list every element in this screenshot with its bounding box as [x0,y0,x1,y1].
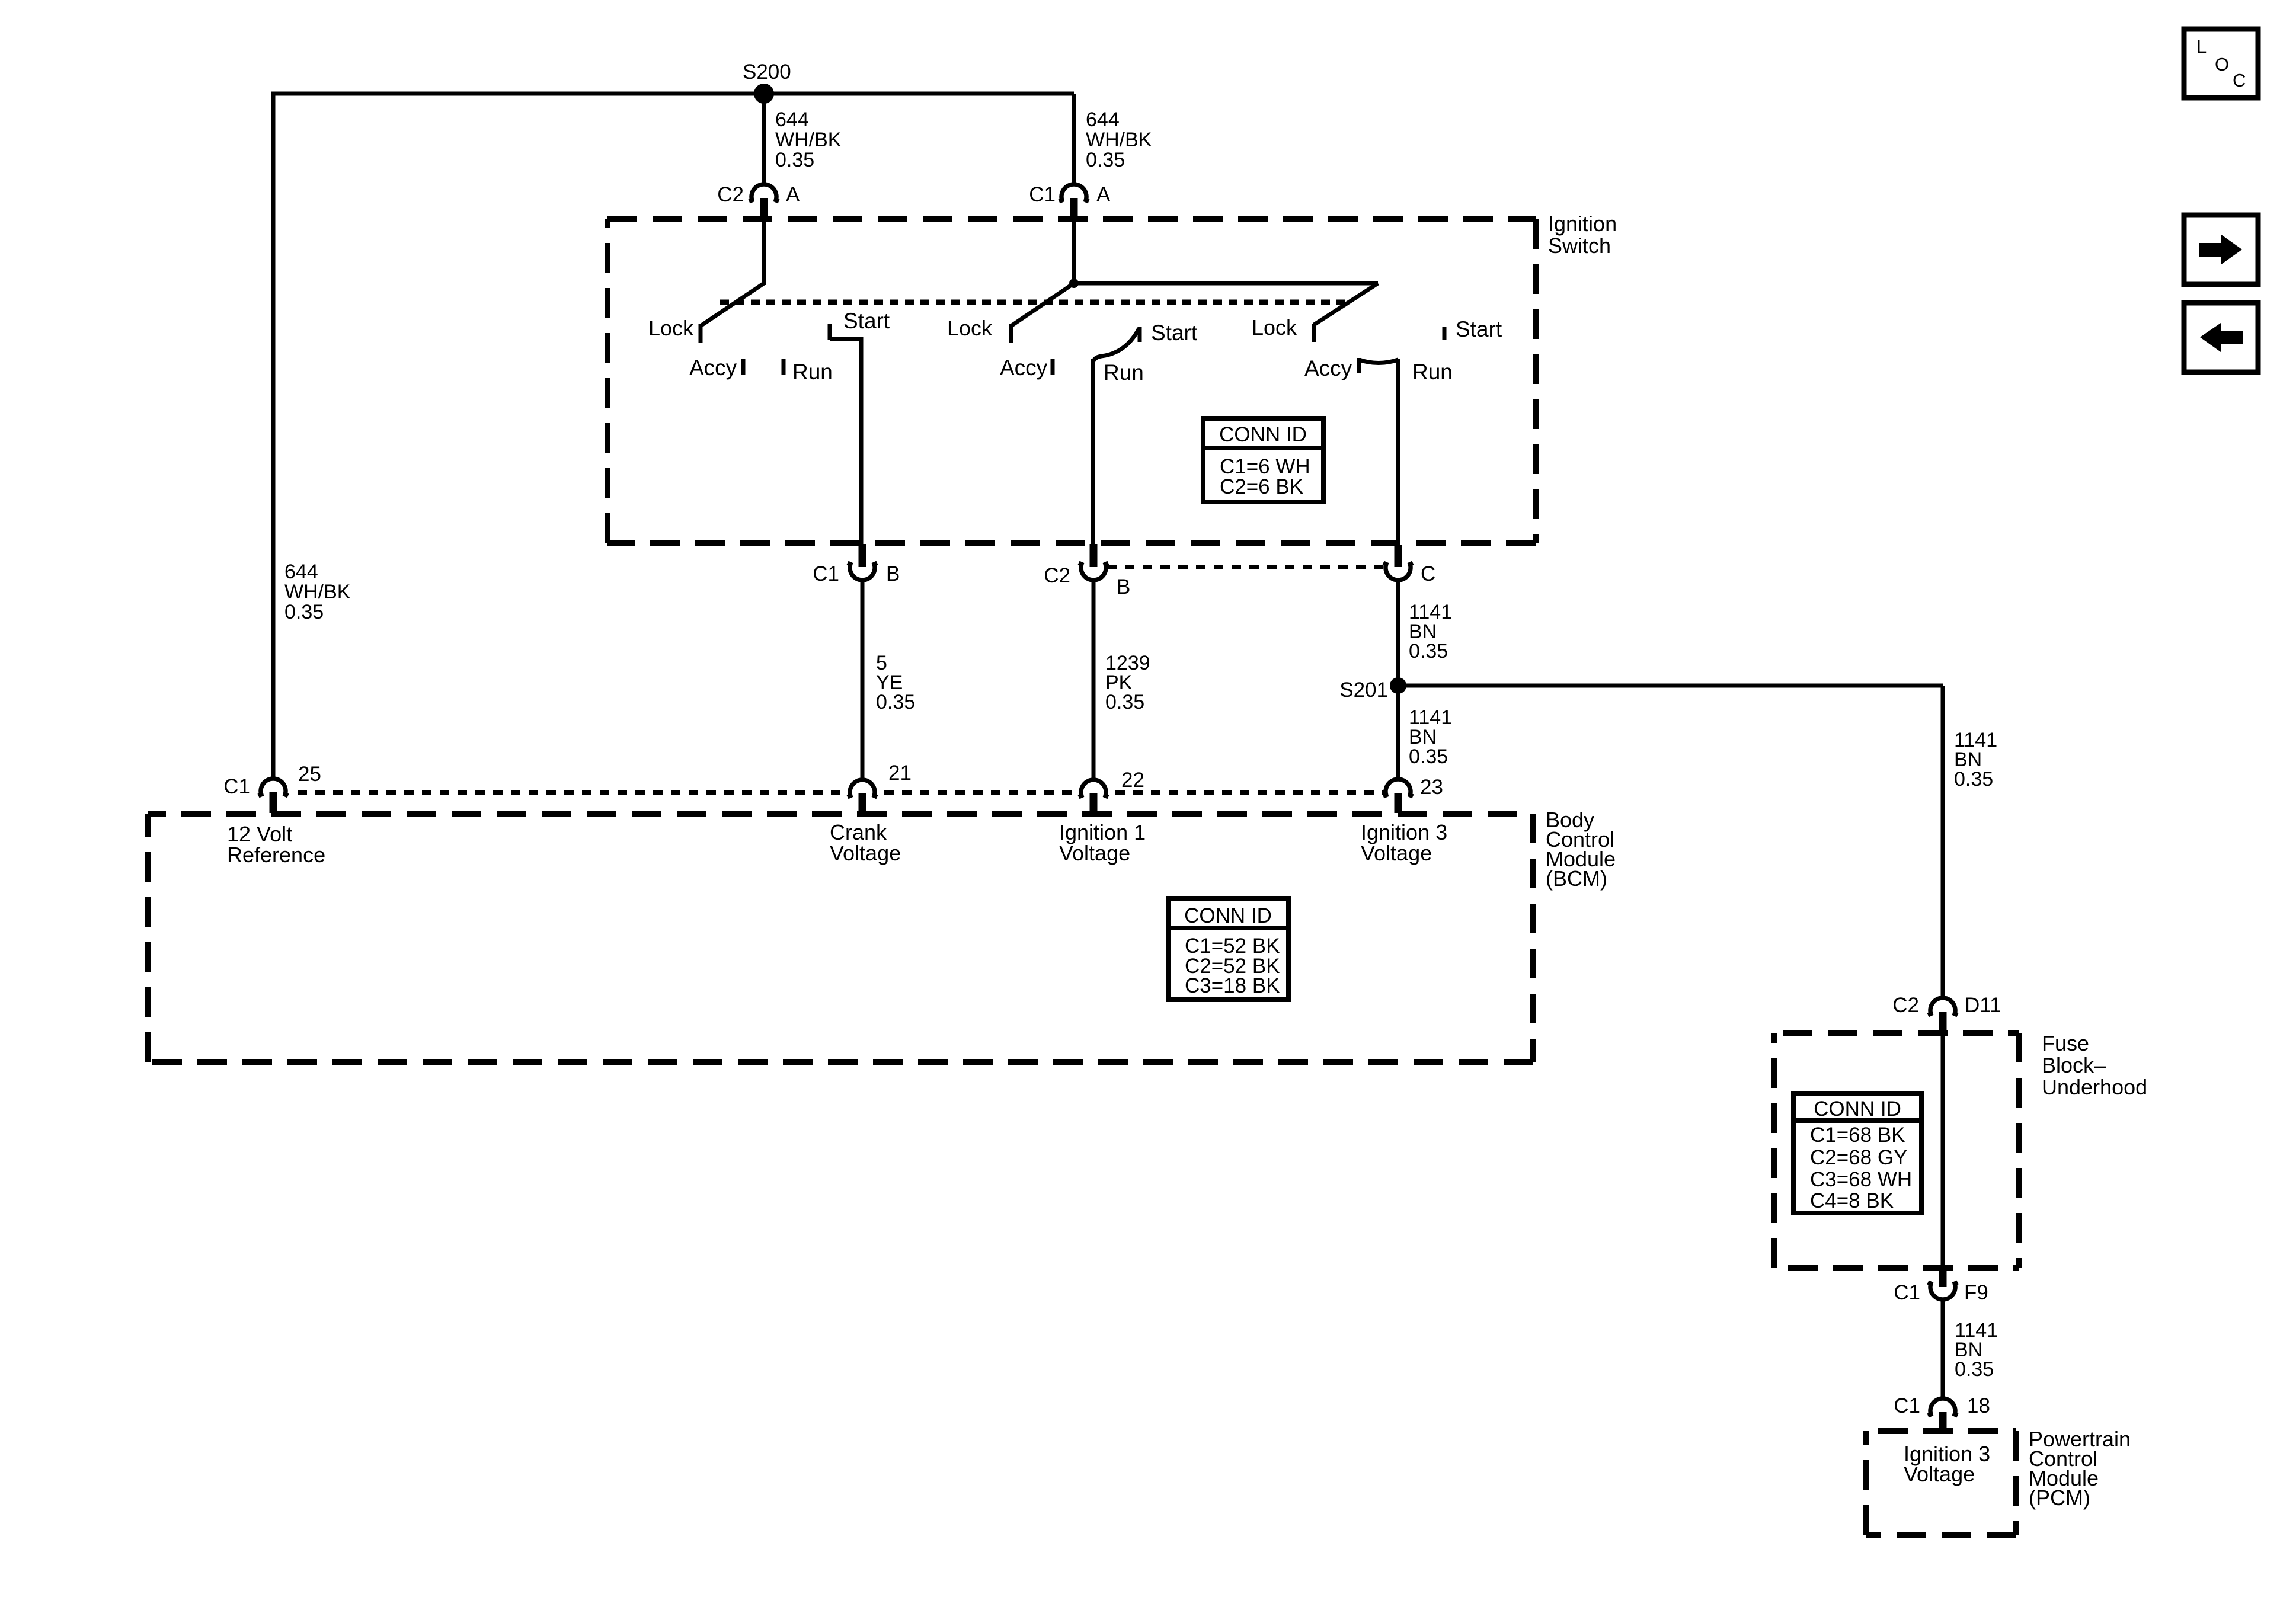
pole3 Accy-Run contact curve [1359,360,1398,363]
dotted line connector row C2B to C [1107,565,1384,569]
mechanical link dotted line [720,300,1351,305]
connector pin C terminal [1395,545,1402,567]
svg-text:(BCM): (BCM) [1546,866,1607,891]
wire top bus right drop to ignition switch C1 pin A [1072,94,1076,186]
switch pole3 wiper to Lock [1314,283,1378,325]
svg-text:21: 21 [888,761,912,785]
connector pin 22 dome [1079,780,1108,797]
wire 1239 PK to BCM pin 22 [1092,580,1096,781]
svg-text:Fuse: Fuse [2042,1031,2089,1055]
svg-text:A: A [1096,183,1111,206]
svg-text:C: C [2233,70,2246,91]
svg-text:Start: Start [1456,317,1502,341]
svg-text:Ignition: Ignition [1548,212,1617,236]
connector C2 pin D11 dome [1928,998,1958,1015]
svg-text:Start: Start [1151,321,1198,345]
pole3 Start contact [1443,327,1447,340]
wire inside fuse block [1941,1033,1945,1270]
wire 644 WH/BK left drop to BCM C1 pin 25 [271,92,276,780]
wire pole1 from pin A [762,216,766,285]
pole1 Run contact [782,359,786,375]
label 1239 PK 0.35 [1105,652,1150,713]
svg-text:C1: C1 [223,775,250,798]
CONN ID table ignition switch [1203,418,1323,502]
connector pin C cup [1383,563,1413,580]
svg-text:C3=68 WH: C3=68 WH [1810,1168,1912,1191]
svg-text:22: 22 [1121,769,1144,792]
svg-text:0.35: 0.35 [1409,745,1448,768]
svg-text:B: B [886,562,900,585]
fuse block underhood box [1774,1033,2019,1268]
svg-text:Lock: Lock [648,316,694,340]
label Powertrain Control Module (PCM) [2029,1427,2131,1510]
connector C2 pin A terminal [760,198,768,217]
connector C2 pin D11 terminal [1939,1012,1947,1035]
pole3 Accy contact [1357,358,1361,373]
CONN ID table BCM [1168,898,1288,1000]
back arrow icon [2184,303,2258,372]
connector pin 23 terminal [1395,793,1402,813]
powertrain control module box [1866,1431,2016,1535]
label 1141 BN 0.35 right wire [1954,729,1997,790]
svg-text:Reference: Reference [227,843,325,867]
wire 1141 BN from S201 to fuse block [1398,684,1943,688]
wire 1141 BN to BCM pin 23 [1396,580,1400,779]
svg-text:644: 644 [1086,108,1120,131]
svg-text:C2: C2 [1044,564,1070,587]
connector C2 pin B cup [1079,563,1108,580]
label 12 Volt Reference [227,822,325,867]
svg-text:0.35: 0.35 [775,149,814,171]
svg-text:CONN ID: CONN ID [1814,1097,1901,1121]
connector C1 pin F9 terminal [1939,1269,1947,1287]
wire S200 drop to ignition switch C2 pin A [762,94,766,186]
splice S201 [1390,677,1406,694]
svg-text:0.35: 0.35 [1955,1358,1994,1381]
label Ignition 3 Voltage PCM [1904,1442,1990,1486]
svg-text:S200: S200 [743,60,791,84]
svg-text:Voltage: Voltage [1059,841,1130,865]
connector pin 23 dome [1383,779,1413,796]
svg-text:Voltage: Voltage [1361,841,1432,865]
svg-text:Underhood: Underhood [2042,1075,2147,1099]
svg-text:B: B [1117,575,1130,598]
svg-text:F9: F9 [1964,1281,1988,1304]
pole2 Run-Start contact curve [1093,328,1139,363]
svg-text:Switch: Switch [1548,233,1611,258]
LOC icon box [2184,29,2258,98]
svg-text:Run: Run [1104,360,1144,385]
svg-text:Accy: Accy [1000,356,1048,380]
svg-text:C: C [1421,562,1435,585]
svg-text:S201: S201 [1339,678,1388,702]
label 5 YE 0.35 [876,652,915,713]
pole2 Start contact [1138,327,1142,342]
svg-text:Lock: Lock [947,316,993,340]
svg-text:C2: C2 [717,183,744,206]
svg-text:Run: Run [792,360,833,384]
svg-text:0.35: 0.35 [284,601,324,623]
label Crank Voltage [830,820,901,865]
pole2 Lock contact [1009,324,1013,343]
connector C1 pin A terminal [1070,198,1078,217]
connector C2 pin A dome [749,184,779,201]
svg-text:C2=68 GY: C2=68 GY [1810,1146,1907,1169]
svg-text:0.35: 0.35 [1086,149,1125,171]
connector C1 pin 18 terminal [1939,1412,1947,1430]
svg-text:0.35: 0.35 [1409,640,1448,662]
switch pole2 wiper to Lock [1011,283,1074,326]
label 644 WH/BK 0.35 at C2 A [775,108,842,171]
svg-text:CONN ID: CONN ID [1219,423,1307,446]
connector C1 pin B terminal [859,544,866,567]
svg-text:C3=18 BK: C3=18 BK [1185,974,1280,997]
svg-text:Lock: Lock [1252,315,1297,340]
svg-text:C2: C2 [1892,994,1919,1017]
forward arrow icon [2184,215,2258,284]
pole3 Lock contact [1312,324,1316,342]
svg-text:0.35: 0.35 [1105,691,1144,713]
svg-text:WH/BK: WH/BK [1086,129,1152,151]
wire 5 YE to BCM pin 21 [861,580,865,781]
svg-text:0.35: 0.35 [1954,768,1993,790]
svg-text:Accy: Accy [689,356,737,380]
svg-text:O: O [2215,54,2229,75]
wire pole1 Start to C1 B [830,339,861,545]
wire pole2 from pin A [1072,216,1076,285]
connector C1 pin A dome [1059,184,1089,201]
wire pole3 Run to pin C [1396,359,1400,545]
svg-text:644: 644 [284,561,318,583]
svg-text:C4=8 BK: C4=8 BK [1810,1189,1894,1212]
svg-text:A: A [786,183,800,206]
pole1 Lock contact [699,324,703,343]
label 644 WH/BK 0.35 left wire [284,561,351,623]
svg-text:L: L [2196,36,2207,57]
svg-text:23: 23 [1420,776,1443,799]
label 1141 BN 0.35 above S201 [1409,601,1452,662]
wire 1141 BN drop to C2 D11 [1941,686,1945,1000]
svg-text:18: 18 [1967,1394,1990,1417]
svg-text:CONN ID: CONN ID [1184,904,1272,927]
svg-text:Accy: Accy [1304,356,1352,380]
svg-text:C1: C1 [1894,1281,1920,1304]
svg-text:Start: Start [843,309,890,333]
connector C1 pin 25 terminal [270,792,277,813]
connector pin 21 terminal [859,793,866,813]
svg-text:C1: C1 [813,562,839,585]
svg-text:C2=6 BK: C2=6 BK [1220,475,1303,498]
pole2 Accy contact [1051,359,1055,375]
svg-text:(PCM): (PCM) [2029,1486,2090,1510]
CONN ID table fuse block [1793,1093,1921,1213]
junction at C1 A pole [1069,279,1079,288]
svg-text:644: 644 [775,108,809,131]
connector C1 pin 25 dome [258,779,288,796]
switch pole1 wiper to Lock [701,283,764,326]
svg-text:Block–: Block– [2042,1053,2106,1077]
svg-text:WH/BK: WH/BK [775,129,842,151]
label Ignition 1 Voltage [1059,820,1146,865]
label Body Control Module (BCM) [1546,808,1616,891]
connector C1 pin 18 dome [1928,1398,1958,1416]
wire pole2 Run to C2 B [1091,359,1095,545]
svg-text:0.35: 0.35 [876,691,915,713]
label 1141 BN 0.35 at PCM [1955,1319,1998,1381]
label 644 WH/BK 0.35 at C1 A [1086,108,1152,171]
ignition switch box [607,219,1536,543]
dotted line BCM connector row [298,790,1384,795]
connector pin 22 terminal [1090,793,1098,813]
body control module box [148,814,1533,1062]
svg-text:Voltage: Voltage [830,841,901,865]
svg-text:WH/BK: WH/BK [284,581,351,603]
svg-text:Voltage: Voltage [1904,1462,1975,1486]
connector C2 pin B terminal [1090,544,1098,567]
svg-text:Run: Run [1412,360,1453,384]
label 1141 BN 0.35 below S201 [1409,706,1452,768]
wire 1141 BN from F9 to PCM [1941,1299,1945,1400]
connector C1 pin F9 cup [1928,1282,1958,1299]
label Fuse Block Underhood [2042,1031,2147,1099]
splice S200 [754,84,774,104]
svg-text:D11: D11 [1965,994,2001,1017]
label Ignition 3 Voltage [1361,820,1447,865]
wire 644 WH/BK top bus from S200 [271,92,1074,96]
label Ignition Switch [1548,212,1617,258]
svg-text:C1: C1 [1029,183,1056,206]
connector pin 21 dome [848,780,877,797]
svg-text:C1: C1 [1894,1394,1920,1417]
svg-text:25: 25 [298,763,321,786]
wire pole3 feed from junction [1074,281,1378,286]
pole1 Start contact [828,324,832,340]
connector C1 pin B cup [848,563,877,580]
svg-text:C1=68 BK: C1=68 BK [1810,1124,1905,1147]
pole1 Accy contact [741,359,746,375]
